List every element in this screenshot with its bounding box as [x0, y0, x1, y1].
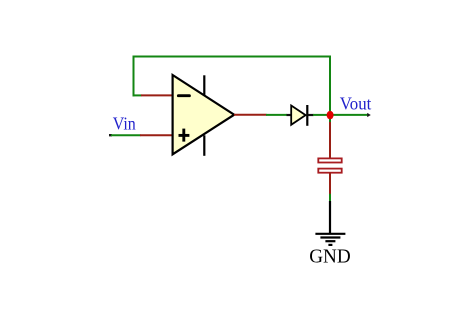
wire feedback: corner stub at inverting input — [133, 94, 142, 96]
wire feedback: right vertical segment down to output node — [329, 56, 331, 119]
capacitor C1 bottom pin — [329, 173, 331, 195]
diode D1 anode lead — [287, 114, 292, 116]
node junction dot — [327, 111, 334, 119]
op-amp positive supply pin — [203, 75, 205, 95]
wire Vin net (green) — [111, 134, 141, 136]
pin stub to op-amp non-inverting input — [140, 134, 173, 136]
pin stub to op-amp inverting input — [141, 94, 173, 96]
wire Vin input terminal tip — [109, 134, 112, 136]
svg-text:Vout: Vout — [340, 93, 372, 113]
ground bar 3 — [325, 240, 335, 242]
ground bar 1 — [315, 233, 345, 235]
wire diode to node — [313, 114, 328, 116]
diode D1 cathode lead — [308, 114, 314, 116]
wire feedback: top horizontal segment — [133, 56, 332, 58]
ground bar 4 — [328, 244, 332, 246]
wire output net to diode — [266, 114, 287, 116]
svg-text:Vin: Vin — [113, 114, 136, 134]
ground bar 2 — [320, 236, 340, 238]
op-amp minus sign (inverting input) — [178, 94, 189, 97]
wire feedback: left vertical segment — [133, 56, 135, 97]
diode D1 cathode bar — [306, 105, 308, 126]
op-amp negative supply pin — [203, 135, 205, 156]
capacitor C1 top plate — [318, 158, 341, 162]
svg-text:GND: GND — [309, 246, 351, 267]
pin stub from op-amp output — [234, 114, 267, 116]
op-amp U1 body — [173, 75, 235, 154]
op-amp plus sign (non-inverting input) — [179, 129, 190, 142]
Vout terminal tip — [367, 113, 371, 117]
wire stub below node — [329, 116, 331, 123]
capacitor C1 top pin — [329, 122, 331, 159]
wire stub capacitor to ground — [329, 194, 331, 202]
wire from node to Vout terminal — [332, 114, 369, 116]
ground lead — [329, 201, 331, 234]
diode D1 body — [291, 106, 305, 125]
capacitor C1 bottom plate — [318, 169, 341, 173]
